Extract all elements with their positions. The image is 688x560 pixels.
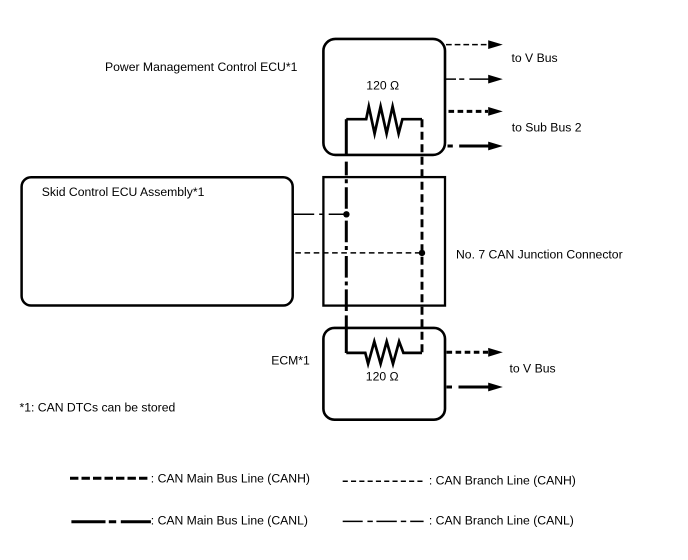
wire: CANH branch from Skid Control ECU (thin dashed): [295, 252, 420, 254]
label: 120 &#937; value of resistor R1: [366, 79, 399, 93]
legend sample: CAN Branch Line CANL (thin dash-dot): [343, 520, 424, 522]
wire: heavy dashed CANH main bus arrow to V Bus (from ECM): [447, 348, 503, 357]
legend sample: CAN Main Bus Line CANL (heavy dash-dot): [71, 520, 150, 523]
note: *1 CAN DTCs can be stored: [20, 400, 176, 414]
wire: heavy dash-dot CANL main bus arrow (from ECM): [447, 383, 503, 392]
wire: heavy dashed CANH main bus arrow to Sub Bus 2: [449, 107, 503, 116]
box U1 Power Management Control ECU: [323, 39, 445, 155]
label: 120 &#937; value of resistor R2: [366, 370, 399, 384]
wire: CANL branch from Skid Control ECU (thin dash-dot): [293, 213, 344, 215]
box: No. 7 CAN Junction Connector: [323, 177, 445, 306]
resistor R1 (120 ohm terminating resistor inside Power Management Control ECU): [346, 107, 422, 134]
legend sample: CAN Branch Line CANH (thin dashed): [343, 480, 423, 482]
wire: CANL main bus vertical, solid lead inside U1: [345, 119, 348, 155]
legend label: CAN Main Bus Line (CANL): [151, 514, 308, 528]
box: Skid Control ECU Assembly: [22, 177, 293, 305]
svg-text:*1: CAN DTCs can be stored: *1: CAN DTCs can be stored: [20, 400, 176, 414]
wire: CANL main bus vertical, solid lead inside ECM: [345, 315, 348, 353]
legend label: CAN Main Bus Line (CANH): [151, 472, 310, 486]
label: No. 7 CAN Junction Connector: [456, 248, 623, 262]
svg-text:120 Ω: 120 Ω: [366, 79, 399, 93]
svg-text:: CAN Branch Line (CANH): : CAN Branch Line (CANH): [429, 473, 576, 487]
label: Power Management Control ECU*1: [105, 60, 298, 74]
svg-text:Power Management Control ECU*1: Power Management Control ECU*1: [105, 60, 298, 74]
label: Skid Control ECU Assembly*1: [42, 185, 205, 199]
svg-text:: CAN Branch Line (CANL): : CAN Branch Line (CANL): [429, 514, 574, 528]
svg-text:: CAN Main Bus Line (CANH): : CAN Main Bus Line (CANH): [151, 472, 310, 486]
svg-text:to Sub Bus 2: to Sub Bus 2: [512, 121, 582, 135]
label: to V Bus (bottom): [510, 362, 556, 376]
wire: heavy dash-dot CANL main bus arrow (bottom of U1): [448, 142, 503, 151]
label: ECM*1: [271, 354, 310, 368]
legend label: CAN Branch Line (CANH): [429, 473, 576, 487]
box U2 ECM: [323, 328, 445, 420]
svg-text:120 Ω: 120 Ω: [366, 370, 399, 384]
wire: thin dash-dot CANL branch arrow (second from top): [445, 75, 503, 84]
svg-text:ECM*1: ECM*1: [271, 354, 310, 368]
legend sample: CAN Main Bus Line CANH (heavy dashed): [70, 477, 148, 480]
legend label: CAN Branch Line (CANL): [429, 514, 574, 528]
svg-text:No. 7 CAN Junction Connector: No. 7 CAN Junction Connector: [456, 248, 623, 262]
node: junction dot on CANH bus: [419, 250, 425, 256]
resistor R2 (120 ohm terminating resistor inside ECM): [346, 342, 422, 364]
svg-text:: CAN Main Bus Line (CANL): : CAN Main Bus Line (CANL): [151, 514, 308, 528]
wire: CANL main bus vertical dash-dot segments (U1 to ECM): [345, 162, 348, 311]
svg-text:to V Bus: to V Bus: [510, 362, 556, 376]
wire: CANH main bus vertical dashed (U1 resistor to ECM resistor): [421, 119, 424, 353]
node: junction dot on CANL bus: [343, 211, 349, 217]
svg-text:to V Bus: to V Bus: [512, 51, 558, 65]
label: to Sub Bus 2: [512, 121, 582, 135]
label: to V Bus (top): [512, 51, 558, 65]
svg-text:Skid Control ECU Assembly*1: Skid Control ECU Assembly*1: [42, 185, 205, 199]
wire: thin dashed CANH branch arrow to V Bus (top): [446, 40, 503, 49]
